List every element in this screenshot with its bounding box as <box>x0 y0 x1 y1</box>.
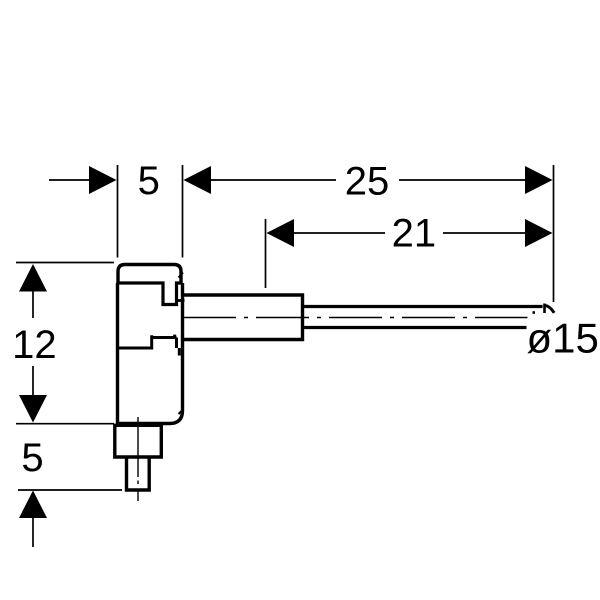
extension line x=553.5 (25/21 right) <box>553 165 555 302</box>
body left edge <box>116 283 119 424</box>
arrowhead dim21 left pointing left <box>267 219 295 247</box>
svg-text:ø15: ø15 <box>527 315 599 362</box>
dim 25 line right segment <box>399 179 527 181</box>
svg-text:5: 5 <box>21 436 43 480</box>
dim 12 line upper segment <box>32 290 34 318</box>
internal seat step <box>117 335 177 348</box>
dim 21 line left segment <box>290 232 385 234</box>
centerline end dot <box>533 311 536 314</box>
dim 25 line left segment <box>207 179 336 181</box>
arrowhead dim5 bottom up <box>19 491 47 519</box>
stem <box>127 457 150 490</box>
svg-text:5: 5 <box>138 159 160 203</box>
extension line x=182.5 (dim 5 right / 25 left) <box>182 165 184 258</box>
arrowhead dim12 up <box>19 264 47 292</box>
internal seat stub <box>178 348 181 356</box>
dim 12 line lower segment <box>32 366 34 395</box>
arrowhead dim12 down <box>19 395 47 423</box>
cap edge tick <box>179 273 184 278</box>
arrowhead dim25 right pointing right <box>525 166 553 194</box>
svg-text:12: 12 <box>12 323 57 367</box>
tube tip tick <box>543 304 546 314</box>
extension line y=423.7 (12 bottom / 5 top) <box>16 423 114 425</box>
tube centerline (dash-dot) <box>183 317 528 319</box>
tube top line <box>304 305 543 308</box>
extension line x=117.5 (dim 5 left) <box>117 165 119 258</box>
valve body cap (rounded top) <box>118 265 181 285</box>
lower block <box>115 425 162 457</box>
dim 5 top tail line <box>49 179 91 181</box>
tube bottom line <box>304 326 527 329</box>
extension line y=262.5 (12 top) <box>16 262 114 264</box>
sleeve <box>184 295 303 340</box>
arrowhead dim21 right pointing right <box>525 219 553 247</box>
arrowhead dim25 left pointing left <box>184 166 212 194</box>
stem centerline (dash-dot) <box>137 417 139 501</box>
dim 5 bottom tail line <box>32 517 34 547</box>
dim 21 line right segment <box>443 232 527 234</box>
tube tip arc <box>545 306 554 313</box>
body right edge and bottom with rounded corner <box>116 283 183 424</box>
svg-text:25: 25 <box>345 160 390 204</box>
svg-text:21: 21 <box>392 212 437 256</box>
extension line y=490 (5 bottom) <box>18 489 122 491</box>
cap bottom line with internal notch <box>117 283 183 305</box>
extension line x=265.5 (21 left) <box>265 219 267 288</box>
slot bottom line right of notch <box>177 299 185 302</box>
arrowhead dim5 pointing right <box>89 166 117 194</box>
body edge tick lower <box>179 410 184 415</box>
